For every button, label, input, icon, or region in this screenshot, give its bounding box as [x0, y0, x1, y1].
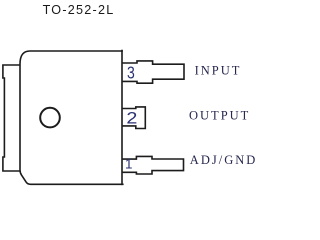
- svg-text:ADJ/GND: ADJ/GND: [190, 153, 256, 167]
- svg-text:INPUT: INPUT: [195, 64, 242, 78]
- svg-text:2: 2: [126, 110, 137, 128]
- svg-text:OUTPUT: OUTPUT: [189, 108, 250, 122]
- svg-text:TO-252-2L: TO-252-2L: [43, 3, 115, 17]
- svg-text:3: 3: [127, 63, 135, 83]
- svg-text:1: 1: [125, 157, 133, 172]
